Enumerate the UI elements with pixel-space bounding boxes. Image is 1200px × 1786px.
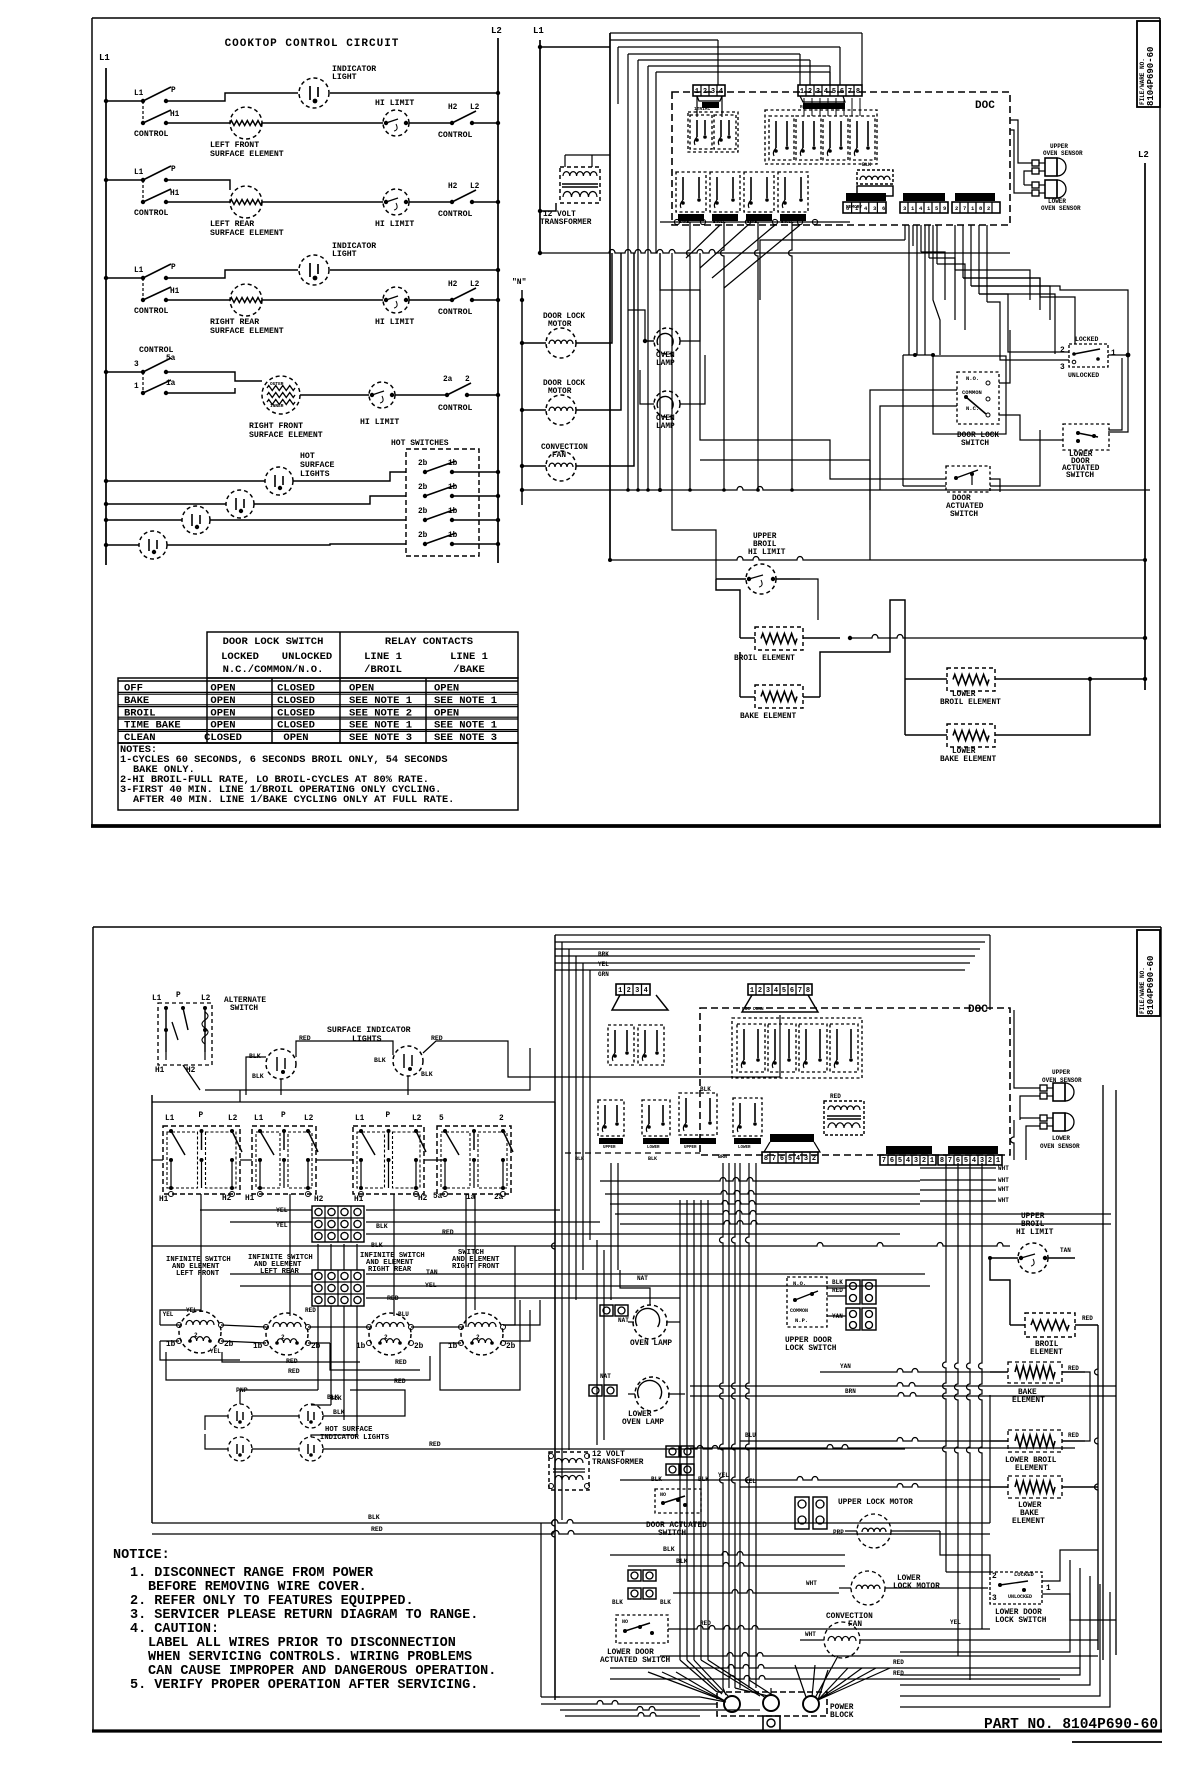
control switch row 4 (right front) [104, 346, 176, 395]
svg-text:2a: 2a [443, 376, 453, 384]
svg-text:RED: RED [429, 1441, 441, 1448]
power block [717, 1692, 854, 1731]
svg-text:L2: L2 [228, 1115, 238, 1123]
door lock switch (top) [957, 372, 999, 448]
svg-text:3: 3 [914, 1157, 918, 1165]
svg-text:BLK: BLK [648, 1156, 657, 1162]
svg-text:BRN: BRN [718, 1154, 727, 1160]
svg-text:LOWER: LOWER [952, 691, 976, 699]
svg-text:RED: RED [700, 1620, 711, 1627]
svg-text:5: 5 [782, 987, 786, 995]
svg-text:H1: H1 [170, 190, 180, 198]
DOC box (top) [672, 92, 1010, 225]
svg-text:BROIL ELEMENT: BROIL ELEMENT [940, 699, 1001, 707]
control switch row 3 [104, 264, 180, 316]
svg-text:LEFT FRONT: LEFT FRONT [176, 1270, 220, 1278]
svg-text:L2: L2 [304, 1115, 314, 1123]
svg-text:DOOR LOCK: DOOR LOCK [543, 380, 585, 388]
svg-text:COMMON: COMMON [962, 389, 982, 396]
svg-text:1: 1 [1111, 350, 1116, 358]
svg-text:L2: L2 [470, 183, 480, 191]
svg-text:UPPER: UPPER [713, 216, 726, 220]
bundle to power block fanout [723, 1665, 828, 1700]
surface indicator wire to right (bottom) [0, 0, 1, 1]
hi limit row 3 [262, 287, 414, 327]
svg-text:H2: H2 [448, 183, 458, 191]
svg-text:LIGHT: LIGHT [332, 73, 357, 82]
connector J1 top [693, 85, 725, 104]
svg-text:2b: 2b [418, 532, 428, 540]
svg-text:DOC: DOC [975, 100, 995, 112]
svg-text:UPPER LOCK MOTOR: UPPER LOCK MOTOR [838, 1499, 913, 1507]
svg-text:BLK: BLK [663, 1546, 675, 1553]
svg-text:NOTICE:: NOTICE: [113, 1548, 170, 1563]
hot switches dashed box [391, 439, 479, 556]
svg-text:L1: L1 [134, 90, 144, 98]
connector grid upper [312, 1206, 364, 1242]
svg-text:OPEN: OPEN [434, 683, 459, 695]
svg-text:H1: H1 [354, 1196, 364, 1204]
svg-text:SWITCH: SWITCH [1066, 472, 1094, 480]
svg-text:BLK: BLK [421, 1071, 433, 1078]
svg-text:N.P.: N.P. [795, 1317, 808, 1324]
hot light wiring [104, 470, 500, 547]
svg-text:5: 5 [788, 1155, 792, 1163]
svg-text:7: 7 [798, 987, 802, 995]
svg-text:H2: H2 [314, 1196, 324, 1204]
svg-text:7: 7 [848, 88, 852, 96]
svg-text:6: 6 [790, 987, 794, 995]
node L2 right rail [1138, 150, 1149, 690]
hot switch 2 [418, 484, 479, 498]
svg-text:4: 4 [906, 1157, 910, 1165]
svg-text:RED: RED [1068, 1365, 1079, 1372]
svg-text:8104P690-60: 8104P690-60 [1146, 956, 1156, 1015]
svg-text:OPEN: OPEN [210, 707, 235, 719]
svg-text:RED: RED [394, 1378, 406, 1385]
svg-text:2b: 2b [224, 1341, 234, 1349]
DOC left bundle extra verticals (bottom) [597, 1163, 618, 1445]
hot surface light 1 [265, 467, 293, 495]
svg-text:POWER: POWER [830, 1704, 854, 1712]
bottom right corner runs [668, 1531, 1116, 1640]
svg-text:N.O.: N.O. [966, 375, 979, 382]
svg-text:H1: H1 [155, 1067, 165, 1075]
infinite switch 4 [437, 1115, 513, 1197]
svg-text:SWITCH: SWITCH [658, 1530, 686, 1538]
svg-text:BLK: BLK [676, 1558, 688, 1565]
node N rail [512, 278, 526, 505]
svg-text:5: 5 [898, 1157, 902, 1165]
svg-text:LOWER DOOR: LOWER DOOR [607, 1649, 654, 1657]
svg-text:L1: L1 [254, 1115, 264, 1123]
svg-text:N.O.: N.O. [793, 1280, 806, 1287]
indicator light row 3 [166, 242, 500, 285]
svg-text:BLOCK: BLOCK [830, 1712, 854, 1720]
svg-text:2b: 2b [311, 1343, 321, 1351]
broil element (top) [716, 579, 852, 663]
svg-text:H2: H2 [448, 104, 458, 112]
svg-text:1b: 1b [166, 1341, 176, 1349]
svg-text:ELEMENT: ELEMENT [1015, 1465, 1048, 1473]
lower lock motor (bottom) [806, 1571, 940, 1605]
svg-text:SURFACE ELEMENT: SURFACE ELEMENT [210, 327, 284, 336]
svg-text:H2: H2 [222, 1195, 232, 1203]
wires element feeders [820, 600, 905, 697]
svg-text:BEFORE REMOVING WIRE COVER.: BEFORE REMOVING WIRE COVER. [148, 1580, 367, 1595]
oven lamp upper (bottom) [600, 1270, 680, 1348]
wire number labels (bottom bundle) [575, 1145, 916, 1162]
DOC small connector 1 [843, 193, 886, 213]
svg-text:2: 2 [955, 205, 958, 212]
svg-text:2: 2 [627, 987, 631, 995]
top mid bundle extensions [626, 72, 830, 492]
power block fan-in [648, 1656, 890, 1702]
svg-text:5: 5 [832, 88, 836, 96]
bottom feeder bundle left of DOC [541, 949, 717, 1704]
connector C2 (bottom) [880, 1146, 936, 1165]
tiny labels bottom DOC relays [603, 1006, 764, 1150]
infinite switch 1 [163, 1112, 242, 1197]
upper door lock switch (bottom) [785, 1277, 846, 1353]
svg-text:BROIL: BROIL [1021, 1221, 1045, 1229]
svg-text:8: 8 [856, 88, 860, 96]
svg-text:/BROIL: /BROIL [364, 664, 402, 676]
svg-text:L1: L1 [99, 53, 110, 63]
DOC connector funnels black blocks (top) [697, 96, 845, 109]
svg-text:7: 7 [963, 205, 966, 212]
svg-text:LEFT REAR: LEFT REAR [210, 220, 254, 229]
misc long feeders [658, 253, 818, 620]
svg-text:TAN: TAN [426, 1269, 438, 1276]
svg-text:8104P690-60: 8104P690-60 [1146, 47, 1156, 106]
svg-text:LOWER: LOWER [738, 1146, 751, 1150]
svg-text:LEFT REAR: LEFT REAR [260, 1268, 300, 1276]
svg-text:HI LIMIT: HI LIMIT [1016, 1229, 1054, 1237]
svg-text:COMMON: COMMON [790, 1308, 808, 1314]
svg-text:BLK: BLK [333, 1409, 345, 1416]
svg-text:YEL: YEL [276, 1222, 288, 1229]
bottom connector J1 [612, 984, 668, 1010]
svg-text:/BAKE: /BAKE [453, 664, 485, 676]
svg-text:5a: 5a [166, 355, 176, 363]
svg-text:UPPER DOOR: UPPER DOOR [785, 1337, 832, 1345]
svg-text:2b: 2b [506, 1343, 516, 1351]
svg-text:SURFACE ELEMENT: SURFACE ELEMENT [210, 229, 284, 238]
svg-text:CLOSED: CLOSED [277, 695, 315, 707]
svg-text:LOCKED: LOCKED [1075, 336, 1099, 343]
svg-text:L2: L2 [491, 26, 502, 36]
svg-text:SURFACE ELEMENT: SURFACE ELEMENT [210, 150, 284, 159]
svg-text:HI LIMIT: HI LIMIT [748, 549, 786, 557]
svg-text:MOTOR: MOTOR [548, 388, 572, 396]
svg-text:LABEL ALL WIRES PRIOR TO DISCO: LABEL ALL WIRES PRIOR TO DISCONNECTION [148, 1636, 456, 1651]
hot light wiring (bottom) [205, 1390, 905, 1449]
svg-text:RIGHT REAR: RIGHT REAR [368, 1266, 412, 1274]
svg-text:RED: RED [395, 1359, 407, 1366]
bottom mid bundle more verticals [680, 1200, 766, 1698]
DOC to switches wire bundle [760, 225, 1055, 354]
svg-text:DOOR ACTUATED: DOOR ACTUATED [646, 1522, 707, 1530]
node L1 cooktop rail [99, 53, 110, 565]
power block extra feeds [560, 1707, 760, 1717]
svg-text:CONTROL: CONTROL [438, 308, 472, 317]
svg-text:OPEN: OPEN [349, 683, 374, 695]
svg-text:1: 1 [1046, 1585, 1051, 1593]
svg-text:LOCKED: LOCKED [221, 651, 259, 663]
svg-text:3: 3 [1060, 364, 1065, 372]
svg-text:8: 8 [764, 1155, 768, 1163]
hot surface indicator lights (bottom) [320, 1394, 441, 1448]
svg-text:UPPER: UPPER [1052, 1069, 1070, 1076]
svg-text:L1: L1 [152, 995, 162, 1003]
svg-text:YEL: YEL [598, 961, 609, 968]
svg-text:5: 5 [439, 1115, 444, 1123]
svg-text:1a: 1a [466, 1194, 476, 1202]
svg-text:12 VOLT: 12 VOLT [592, 1451, 625, 1459]
control switch row 1 [104, 87, 180, 139]
svg-text:TIME BAKE: TIME BAKE [124, 720, 181, 732]
svg-text:BROIL: BROIL [1035, 1341, 1059, 1349]
svg-text:LEFT FRONT: LEFT FRONT [210, 141, 259, 150]
svg-text:RED: RED [371, 1526, 383, 1533]
svg-text:BLU: BLU [745, 1432, 756, 1439]
lower door actuated switch (bottom) [600, 1615, 671, 1665]
svg-text:2: 2 [703, 88, 707, 96]
hot surface light 4 [139, 531, 167, 559]
door actuated switch (top) [946, 466, 990, 519]
svg-text:P: P [171, 87, 176, 95]
svg-text:BROIL ELEMENT: BROIL ELEMENT [734, 655, 795, 663]
svg-text:7: 7 [772, 1155, 776, 1163]
svg-text:2a: 2a [494, 1194, 504, 1202]
svg-text:LINE 1: LINE 1 [364, 651, 402, 663]
svg-text:HI LIMIT: HI LIMIT [375, 220, 414, 229]
svg-text:LOWER DOOR: LOWER DOOR [995, 1609, 1042, 1617]
svg-text:NAT: NAT [600, 1373, 611, 1380]
svg-text:2b: 2b [418, 508, 428, 516]
svg-text:SURFACE: SURFACE [300, 461, 334, 470]
tiny relay labels top DOC [679, 104, 871, 225]
svg-text:WHT: WHT [806, 1580, 817, 1587]
broil loop wires (top) [0, 0, 1, 1]
svg-text:LOWER: LOWER [647, 1146, 660, 1150]
svg-text:BLK: BLK [612, 1599, 623, 1606]
svg-text:BLK: BLK [832, 1279, 843, 1286]
upper broil hi limit (top) [716, 533, 800, 594]
svg-text:2: 2 [1060, 347, 1065, 355]
door actuated switch loop (top) [990, 430, 1040, 486]
svg-text:BLU: BLU [398, 1311, 409, 1318]
middle vertical bundle (bottom) [720, 1163, 756, 1688]
WHT wire runs [920, 1165, 1009, 1204]
svg-text:BROIL: BROIL [753, 541, 777, 549]
svg-text:NO: NO [660, 1492, 666, 1498]
svg-text:ELEMENT: ELEMENT [1012, 1397, 1045, 1405]
svg-text:BLK: BLK [700, 1086, 711, 1093]
svg-text:PART NO. 8104P690-60: PART NO. 8104P690-60 [984, 1717, 1158, 1733]
upper oven sensor [1010, 120, 1083, 185]
right rails bottom extension [1095, 1325, 1099, 1650]
svg-text:ALTERNATE: ALTERNATE [224, 997, 266, 1005]
svg-text:WHEN SERVICING CONTROLS. WIRIN: WHEN SERVICING CONTROLS. WIRING PROBLEMS [148, 1650, 472, 1665]
svg-text:1: 1 [618, 987, 622, 995]
svg-text:6: 6 [780, 1155, 784, 1163]
svg-text:N.C.: N.C. [966, 405, 979, 412]
upper broil feed wires [0, 0, 1, 1]
connector grid wires [152, 1207, 1010, 1302]
svg-text:SWITCH: SWITCH [961, 440, 989, 448]
svg-text:CLOSED: CLOSED [277, 683, 315, 695]
top feeder bundle (bottom diagram) [555, 935, 990, 1700]
svg-text:HOT SWITCHES: HOT SWITCHES [391, 439, 449, 448]
svg-text:RED: RED [1068, 1432, 1079, 1439]
svg-text:BAKE: BAKE [1020, 1510, 1039, 1518]
hot surface lights [300, 452, 334, 479]
svg-text:GRN: GRN [598, 971, 609, 978]
svg-text:CLOSED: CLOSED [277, 720, 315, 732]
svg-text:DOOR LOCK SWITCH: DOOR LOCK SWITCH [223, 636, 324, 648]
svg-text:UPPER: UPPER [753, 533, 777, 541]
DOC bottom connector 2 [900, 193, 948, 213]
svg-text:OVEN LAMP: OVEN LAMP [622, 1419, 664, 1427]
svg-text:8: 8 [940, 1157, 944, 1165]
svg-text:1: 1 [695, 88, 699, 96]
svg-text:L2: L2 [412, 1115, 422, 1123]
svg-text:LOWER: LOWER [897, 1575, 921, 1583]
convection fan (top) [520, 253, 634, 481]
svg-text:6: 6 [882, 205, 885, 212]
svg-text:2: 2 [499, 1115, 504, 1123]
svg-text:BLK: BLK [368, 1514, 380, 1521]
control contact row 2 [409, 183, 500, 219]
svg-text:H1: H1 [159, 1196, 169, 1204]
svg-text:2. REFER ONLY TO FEATURES EQUI: 2. REFER ONLY TO FEATURES EQUIPPED. [130, 1594, 414, 1609]
upper lock motor (bottom) [795, 1497, 913, 1548]
svg-text:H1: H1 [170, 288, 180, 296]
door lock motor 2 [520, 253, 621, 425]
svg-text:BLK: BLK [660, 1599, 671, 1606]
svg-text:3: 3 [711, 88, 715, 96]
bottom connector J2 [742, 984, 818, 1012]
svg-text:"N": "N" [512, 278, 526, 287]
lower bake element (bottom) [740, 1476, 1098, 1526]
12 volt transformer [540, 155, 610, 227]
svg-text:2: 2 [758, 987, 762, 995]
svg-text:SEE NOTE 1: SEE NOTE 1 [434, 695, 497, 707]
svg-text:3: 3 [635, 987, 639, 995]
svg-text:4: 4 [972, 1157, 976, 1165]
svg-text:UNLOCKED: UNLOCKED [282, 651, 332, 663]
svg-text:2: 2 [987, 205, 990, 212]
control contact row 3 [409, 281, 500, 317]
svg-text:2: 2 [808, 88, 812, 96]
svg-text:4: 4 [774, 987, 778, 995]
svg-text:CONTROL: CONTROL [134, 130, 168, 139]
svg-text:2b: 2b [418, 460, 428, 468]
svg-text:5a: 5a [433, 1193, 443, 1201]
svg-text:RED: RED [288, 1368, 300, 1375]
surface indicator light 2 [374, 1035, 443, 1078]
svg-text:YEL: YEL [718, 1472, 729, 1479]
wire broil to L2 [850, 635, 1145, 639]
12 volt transformer (bottom) [549, 1451, 644, 1490]
svg-text:2: 2 [812, 1155, 816, 1163]
svg-text:YEL: YEL [745, 1478, 756, 1485]
DOC box (bottom) [700, 1004, 1010, 1155]
sensor wires (bottom) [1011, 1010, 1041, 1160]
svg-text:WHT: WHT [998, 1186, 1009, 1193]
oven lamp 1 [628, 253, 700, 368]
svg-text:P: P [199, 1112, 204, 1120]
upper broil hi limit (bottom) [988, 1213, 1075, 1273]
svg-text:1b: 1b [253, 1343, 263, 1351]
svg-text:CONTROL: CONTROL [438, 404, 472, 413]
top bus lines [540, 33, 862, 560]
DOC bottom pin digits (top) [846, 205, 990, 212]
svg-text:LOCK SWITCH: LOCK SWITCH [785, 1345, 837, 1353]
door lock motor 1 [520, 253, 612, 358]
relay row bottom of DOC [676, 172, 808, 221]
svg-text:HOT: HOT [300, 452, 315, 461]
hot surface indicator light 1 [228, 1404, 252, 1428]
element 4 (bottom) [448, 1313, 516, 1355]
svg-text:HI LIMIT: HI LIMIT [375, 318, 414, 327]
svg-text:TRANSFORMER: TRANSFORMER [592, 1459, 644, 1467]
svg-text:P: P [386, 1112, 391, 1120]
svg-text:1b: 1b [448, 1343, 458, 1351]
switch interconnect wires (right) [700, 253, 1122, 560]
svg-text:NAT: NAT [637, 1275, 648, 1282]
svg-text:RIGHT REAR: RIGHT REAR [210, 318, 259, 327]
svg-text:CAN CAUSE IMPROPER AND DANGERO: CAN CAUSE IMPROPER AND DANGEROUS OPERATI… [148, 1664, 496, 1679]
relay cluster bottom-DOC [732, 1018, 862, 1078]
svg-text:BRN: BRN [906, 1145, 916, 1152]
svg-text:RIGHT FRONT: RIGHT FRONT [249, 422, 303, 431]
infinite switch 2 [252, 1112, 318, 1197]
svg-text:SEE NOTE 2: SEE NOTE 2 [349, 707, 412, 719]
lower broil element (bottom) [740, 1430, 1085, 1473]
svg-text:RIGHT FRONT: RIGHT FRONT [452, 1263, 500, 1271]
relay cluster A [688, 104, 738, 152]
relay row (bottom diagram) [598, 1086, 762, 1144]
control switch row 2 [104, 166, 180, 218]
svg-text:OVEN SENSOR: OVEN SENSOR [1041, 205, 1081, 212]
svg-text:BAKE ELEMENT: BAKE ELEMENT [740, 713, 796, 721]
svg-text:NO: NO [622, 1619, 628, 1625]
terminal boxes mid (bottom) [651, 1446, 709, 1483]
svg-text:RED: RED [893, 1670, 904, 1677]
DOC bottom edge connectors [762, 1134, 820, 1163]
lower oven sensor [1010, 130, 1081, 212]
svg-text:9: 9 [943, 205, 946, 212]
svg-text:TAN: TAN [1060, 1247, 1071, 1254]
svg-text:L1: L1 [533, 26, 544, 36]
svg-text:OVEN SENSOR: OVEN SENSOR [1043, 150, 1083, 157]
infinite switch element labels [166, 1249, 500, 1278]
oven lamp lower (bottom) [589, 1373, 685, 1427]
element 3 (bottom) [356, 1313, 424, 1355]
convection fan (bottom) [800, 1613, 880, 1658]
H labels row [159, 1193, 504, 1204]
broil element (bottom) [990, 1258, 1098, 1357]
svg-text:UPPER: UPPER [679, 216, 692, 220]
lower broil element (top) [905, 668, 1147, 707]
svg-text:NAT: NAT [618, 1317, 629, 1324]
top long line y560 [608, 557, 1147, 563]
element row wiring [160, 1300, 540, 1416]
hi limit row 2 [262, 189, 414, 229]
